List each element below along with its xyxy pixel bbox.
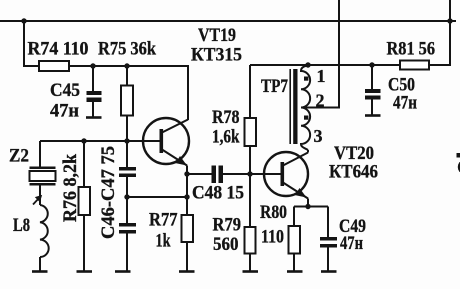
ground under C49 — [321, 270, 337, 273]
svg-text:TP7: TP7 — [261, 76, 288, 97]
svg-text:R78: R78 — [212, 107, 240, 128]
junction VT20 emitter node — [305, 204, 310, 209]
wire R76 bottom to ground — [83, 215, 85, 271]
resistor R81 — [400, 61, 429, 70]
resistor R74 — [39, 61, 69, 71]
wire C46 to C47 midpoint — [126, 177, 128, 223]
wire R79 bottom to ground — [249, 254, 251, 272]
svg-text:VT19: VT19 — [198, 25, 236, 46]
wire R74 right to VT19 collector corner — [69, 66, 188, 120]
wire R81 right to top rail riser — [429, 21, 450, 65]
ground under C50 — [365, 114, 381, 117]
ground under R80 — [287, 270, 303, 273]
wire C45 drop — [92, 66, 94, 91]
junction rail left — [21, 18, 26, 23]
wire Z2 top drop — [39, 141, 41, 167]
svg-text:47н: 47н — [393, 93, 417, 114]
edge artifact right — [457, 153, 460, 172]
resistor R77 — [182, 215, 194, 242]
wire VT20 base — [250, 173, 281, 175]
wire base line to C46 — [126, 141, 128, 167]
wire top power rail — [0, 20, 456, 22]
resistor R75 — [121, 86, 133, 116]
wire C49 bottom to ground — [327, 248, 329, 272]
wire R78 top corner to right row — [249, 65, 251, 118]
ground under C45 — [86, 116, 102, 119]
wire VT19 emitter line to C48 — [187, 173, 212, 175]
svg-text:R79: R79 — [213, 215, 242, 236]
wire R77 bottom to ground — [186, 242, 188, 271]
capacitor C46 — [119, 167, 136, 177]
inductor L8 — [40, 205, 49, 257]
svg-text:R77: R77 — [149, 210, 178, 231]
transistor VT20 — [264, 150, 308, 207]
transformer polarity dot top — [304, 77, 308, 81]
svg-text:1: 1 — [317, 66, 326, 86]
wire R80 bottom to ground — [293, 254, 295, 272]
transformer TP7 core — [290, 69, 297, 144]
junction R76 top — [81, 138, 86, 143]
svg-text:110: 110 — [261, 227, 284, 248]
wire C50 bottom to ground bar — [371, 99, 373, 115]
svg-text:КТ315: КТ315 — [191, 45, 242, 66]
transistor VT19 — [143, 118, 189, 174]
svg-text:R80: R80 — [260, 202, 287, 223]
resistor R76 — [79, 187, 91, 215]
junction R75 bottom / C46 — [124, 138, 129, 143]
resistor R79 — [245, 227, 256, 254]
svg-text:C45: C45 — [50, 80, 80, 101]
ground under R79 — [243, 270, 259, 273]
wire tap2 riser to top edge — [302, 0, 340, 108]
junction R77 tap — [184, 194, 189, 199]
junction C45 top — [90, 63, 95, 68]
svg-text:R75 36k: R75 36k — [98, 39, 156, 60]
junction R75 top — [124, 63, 129, 68]
wire R75 bottom to base line — [126, 116, 128, 142]
ground under R76 — [77, 270, 93, 273]
svg-text:L8: L8 — [13, 215, 30, 236]
junction transformer tap1 — [305, 62, 310, 67]
junction C46-C47 midpoint — [124, 194, 129, 199]
wire emitter down through R77 node — [186, 174, 188, 215]
svg-text:Z2: Z2 — [9, 146, 29, 167]
junction C50 top — [369, 62, 374, 67]
ground under C47 — [115, 270, 131, 273]
capacitor C47 — [119, 223, 136, 234]
svg-text:КТ646: КТ646 — [329, 162, 378, 183]
wire base line from Z2 corner to VT19 base — [40, 140, 160, 142]
wire R80 drop — [293, 207, 295, 227]
svg-text:3: 3 — [314, 126, 323, 146]
wire R78 bottom to node and down to R79 — [249, 146, 251, 227]
svg-text:2: 2 — [316, 91, 325, 111]
wire midpoint tap C46-C47 to emitter string — [127, 196, 187, 198]
svg-text:1k: 1k — [156, 231, 171, 252]
wire right row from R78 corner to R81 — [250, 64, 400, 66]
resistor R80 — [289, 226, 301, 254]
junction VT19 emitter — [184, 171, 189, 176]
wire C50 drop — [371, 65, 373, 89]
capacitor C48 — [212, 166, 224, 184]
wire riser above rail to top edge — [449, 0, 451, 21]
capacitor C50 — [365, 89, 381, 100]
svg-text:1,6k: 1,6k — [212, 127, 240, 148]
svg-text:R81 56: R81 56 — [387, 39, 436, 60]
svg-text:R76 8,2k: R76 8,2k — [60, 154, 81, 222]
svg-text:47н: 47н — [340, 233, 363, 254]
wire C45 bottom to ground bar — [92, 102, 94, 118]
svg-text:560: 560 — [213, 234, 239, 255]
svg-text:C48 15: C48 15 — [192, 183, 244, 204]
junction VT20 base node — [247, 171, 252, 176]
ground under R77 — [179, 270, 195, 273]
wire R76 drop — [83, 141, 85, 187]
crystal Z2 — [30, 167, 56, 206]
wire left drop from rail to R74 row — [24, 21, 39, 66]
transformer TP7 winding — [301, 65, 310, 150]
wire R75 top — [126, 66, 128, 86]
capacitor C49 — [320, 237, 337, 248]
wire C48 to R78/R79 node — [223, 173, 250, 175]
wire C49 drop — [327, 207, 329, 238]
svg-text:C46-C47 75: C46-C47 75 — [98, 146, 119, 239]
resistor R78 — [245, 118, 257, 146]
wire C47 to ground — [126, 234, 128, 272]
svg-text:R74 110: R74 110 — [28, 39, 89, 60]
inductor L8 adjustment arrow — [33, 196, 41, 204]
junction rail right riser — [447, 18, 452, 23]
wire L8 to ground — [39, 257, 41, 271]
ground under L8 — [32, 270, 48, 273]
wire VT20 emitter node horizontal — [294, 206, 328, 208]
capacitor C45 — [87, 91, 102, 102]
transformer polarity dot middle — [304, 116, 308, 120]
svg-text:47н: 47н — [50, 101, 79, 122]
